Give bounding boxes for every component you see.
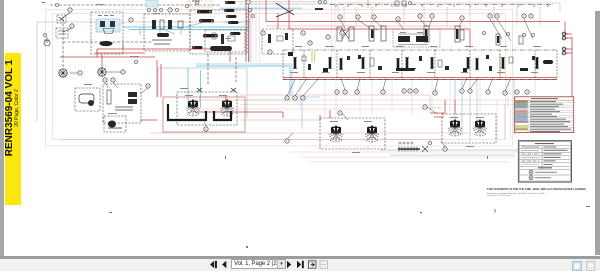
svg-text:THIS SCHEMATIC IS FOR THE 438D: THIS SCHEMATIC IS FOR THE 438D, 428D, 43… (487, 187, 586, 191)
svg-text:Schematics are interpreted fro: Schematics are interpreted from left to … (487, 192, 546, 195)
